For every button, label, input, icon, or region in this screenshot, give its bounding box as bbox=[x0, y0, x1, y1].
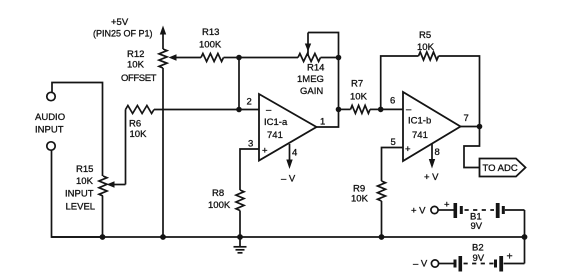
node R14 right bbox=[336, 55, 342, 61]
wire top terminal to R15 top bbox=[52, 83, 103, 177]
wire terminal to B1 bbox=[438, 209, 453, 211]
svg-text:–: – bbox=[406, 104, 412, 115]
svg-text:7: 7 bbox=[464, 113, 469, 124]
svg-text:R15: R15 bbox=[76, 164, 93, 175]
wire node to R7 bbox=[339, 108, 351, 110]
pin 8 stub with arrow bbox=[429, 144, 435, 169]
svg-text:LEVEL: LEVEL bbox=[66, 202, 96, 213]
wire node to R14 bbox=[239, 57, 298, 59]
svg-text:+: + bbox=[405, 144, 411, 155]
svg-text:2: 2 bbox=[247, 97, 252, 108]
potentiometer R14 bbox=[298, 54, 321, 62]
ground bbox=[234, 237, 247, 253]
node R13/R14 bbox=[236, 55, 242, 61]
svg-text:741: 741 bbox=[267, 130, 283, 141]
svg-text:741: 741 bbox=[412, 130, 428, 141]
resistor R5 bbox=[419, 52, 439, 60]
svg-text:R13: R13 bbox=[202, 27, 219, 38]
svg-text:+ V: + V bbox=[424, 172, 439, 183]
wire R12 bottom to rail bbox=[162, 68, 164, 237]
wire R15 wiper up to R6 bbox=[125, 110, 127, 185]
svg-text:R7: R7 bbox=[351, 79, 363, 90]
resistor R8 bbox=[236, 190, 244, 211]
wire terminal to B2 bbox=[439, 263, 454, 265]
label R9 10K bbox=[351, 184, 369, 205]
svg-text:10K: 10K bbox=[130, 129, 148, 140]
svg-text:+ V: + V bbox=[411, 206, 426, 217]
svg-text:– V: – V bbox=[281, 174, 296, 185]
node R15/rail bbox=[100, 234, 106, 240]
op-amp U2 IC1-b bbox=[403, 92, 461, 161]
label AUDIO INPUT bbox=[35, 112, 65, 136]
potentiometer R12 bbox=[159, 49, 167, 68]
svg-text:+: + bbox=[507, 251, 513, 263]
node R8/ground bbox=[237, 234, 243, 240]
label +5V (PIN25 OF P1) bbox=[93, 17, 153, 39]
svg-text:10K: 10K bbox=[351, 193, 369, 204]
resistor R6 bbox=[126, 106, 155, 114]
R14 wiper arrow loop to right end bbox=[305, 33, 339, 58]
svg-text:3: 3 bbox=[248, 139, 253, 150]
svg-text:R5: R5 bbox=[419, 30, 431, 41]
svg-text:+: + bbox=[262, 146, 268, 157]
svg-text:OFFSET: OFFSET bbox=[121, 73, 157, 84]
label R13 100K bbox=[199, 27, 222, 51]
label B1 9V bbox=[470, 212, 483, 233]
svg-text:R14: R14 bbox=[307, 63, 324, 74]
label R12 10K OFFSET bbox=[121, 49, 157, 84]
svg-text:10K: 10K bbox=[127, 59, 145, 70]
battery B2 terminal bbox=[431, 260, 438, 267]
wire R14 node down to R7 node bbox=[338, 58, 340, 110]
wire node down to pin2 node bbox=[238, 58, 240, 110]
svg-text:10K: 10K bbox=[76, 176, 94, 187]
svg-text:9V: 9V bbox=[471, 221, 483, 232]
battery B2 bbox=[454, 256, 525, 272]
svg-text:(PIN25 OF P1): (PIN25 OF P1) bbox=[93, 29, 153, 39]
label R6 10K bbox=[129, 119, 147, 140]
wire pin7 to output node bbox=[461, 126, 480, 128]
node R12/rail bbox=[160, 234, 166, 240]
svg-text:–: – bbox=[266, 104, 272, 115]
wire pin5 to R9 bbox=[382, 148, 404, 182]
R12 wiper arrow bbox=[169, 54, 202, 60]
svg-text:IC1-b: IC1-b bbox=[408, 116, 431, 127]
wire pin3 from R8 bbox=[240, 149, 259, 190]
wire R9 to rail bbox=[381, 201, 383, 237]
svg-text:1: 1 bbox=[320, 117, 325, 128]
wire R15 bottom to rail bbox=[102, 196, 104, 237]
+5V supply arrow bbox=[160, 26, 166, 50]
battery B1 terminal bbox=[431, 206, 438, 213]
R5 right leg down to output node bbox=[439, 56, 480, 127]
wire R7 to pin6 node bbox=[370, 108, 381, 110]
svg-text:R8: R8 bbox=[212, 188, 224, 199]
svg-text:10K: 10K bbox=[350, 92, 368, 103]
svg-text:10K: 10K bbox=[417, 42, 435, 53]
node R7 left bbox=[336, 107, 342, 113]
svg-text:100K: 100K bbox=[208, 200, 231, 211]
wire R14 right to node bbox=[321, 57, 339, 59]
wire IC1-a output to R7 node bbox=[317, 109, 339, 127]
svg-text:INPUT: INPUT bbox=[35, 125, 64, 136]
svg-text:INPUT: INPUT bbox=[65, 189, 94, 200]
svg-text:8: 8 bbox=[435, 147, 440, 158]
svg-text:GAIN: GAIN bbox=[300, 86, 323, 97]
svg-text:5: 5 bbox=[391, 137, 396, 148]
op-amp U1 IC1-a bbox=[259, 94, 317, 161]
potentiometer R15 bbox=[99, 176, 107, 196]
wire R13 to node bbox=[224, 57, 240, 59]
node output bbox=[477, 124, 483, 130]
ground rail bbox=[52, 236, 525, 238]
node R9/rail bbox=[379, 234, 385, 240]
resistor R13 bbox=[201, 54, 224, 62]
wire R6 to pin2 node bbox=[154, 109, 259, 111]
svg-text:4: 4 bbox=[292, 148, 297, 159]
audio input jack top terminal bbox=[47, 92, 55, 100]
svg-text:IC1-a: IC1-a bbox=[264, 117, 288, 128]
wire pin6 node to IC1-b bbox=[381, 108, 403, 110]
svg-text:TO ADC: TO ADC bbox=[483, 163, 518, 174]
battery B1 bbox=[454, 203, 525, 218]
svg-text:9V: 9V bbox=[473, 253, 485, 264]
label R5 10K bbox=[417, 30, 435, 53]
right vertical battery bus bbox=[524, 210, 526, 264]
TO ADC flag bbox=[480, 159, 526, 177]
resistor R7 bbox=[351, 105, 371, 113]
svg-text:R6: R6 bbox=[129, 119, 141, 130]
node rail right end bbox=[522, 234, 528, 240]
pin 4 stub with arrow bbox=[286, 144, 292, 169]
svg-text:1MEG: 1MEG bbox=[297, 74, 324, 85]
label R8 100K bbox=[208, 188, 231, 211]
resistor R9 bbox=[378, 181, 386, 201]
wire bottom terminal down to ground rail bbox=[52, 150, 104, 237]
svg-text:– V: – V bbox=[413, 259, 428, 270]
svg-text:100K: 100K bbox=[199, 39, 222, 50]
node pin2 bbox=[236, 107, 242, 113]
label R15 10K INPUT LEVEL bbox=[65, 164, 95, 213]
svg-text:AUDIO: AUDIO bbox=[35, 112, 65, 123]
label R14 1MEG GAIN bbox=[297, 63, 324, 98]
label R7 10K bbox=[350, 79, 368, 103]
wire jog output to ADC bbox=[464, 127, 480, 168]
svg-text:+: + bbox=[444, 200, 450, 211]
wire R8 to rail bbox=[239, 211, 241, 238]
label B2 9V bbox=[472, 243, 485, 265]
R5 feedback loop left leg bbox=[381, 56, 419, 109]
node pin6 bbox=[378, 107, 384, 113]
svg-text:+5V: +5V bbox=[111, 17, 129, 28]
svg-text:6: 6 bbox=[390, 96, 395, 107]
svg-text:B2: B2 bbox=[472, 243, 484, 254]
audio input jack bottom terminal bbox=[47, 142, 55, 150]
R15 wiper arrow bbox=[107, 181, 126, 187]
